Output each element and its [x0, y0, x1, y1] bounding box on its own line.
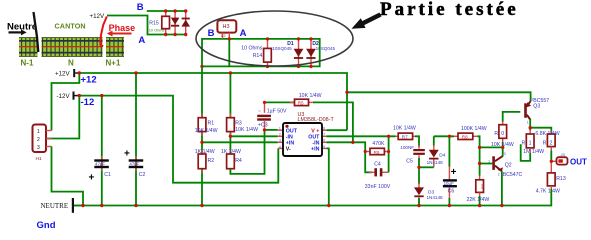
svg-text:5: 5 [323, 145, 325, 149]
svg-text:+: + [451, 167, 457, 178]
svg-text:N+1: N+1 [106, 59, 121, 68]
resistor R5 [290, 93, 322, 106]
svg-text:1K 1/4W: 1K 1/4W [195, 149, 215, 155]
capacitor C3 [257, 102, 287, 129]
svg-text:1: 1 [527, 121, 529, 125]
svg-text:N-1: N-1 [21, 59, 34, 68]
svg-text:1 2: 1 2 [221, 34, 226, 38]
svg-text:C6: C6 [448, 189, 455, 195]
svg-text:+C3: +C3 [258, 122, 268, 128]
wire NEUTRE rail [74, 205, 550, 207]
svg-text:C2: C2 [139, 172, 146, 178]
svg-text:B: B [208, 28, 215, 39]
svg-text:Q3: Q3 [533, 103, 540, 109]
transistor Q3 BC557 [524, 98, 549, 125]
svg-text:LM358L-D08-T: LM358L-D08-T [298, 117, 335, 123]
track segment N-1 [19, 37, 38, 57]
svg-text:B: B [137, 2, 144, 13]
svg-text:1: 1 [37, 129, 40, 135]
svg-text:H1: H1 [36, 156, 42, 162]
svg-text:R: R [522, 141, 526, 147]
svg-text:BC547C: BC547C [503, 172, 523, 178]
wire D4 bottom to C5/D3 node [419, 166, 434, 168]
junction dots H3 loop [200, 37, 312, 68]
svg-text:+12V: +12V [90, 13, 105, 20]
resistor R9 22K [467, 176, 490, 206]
svg-text:NEUTRE: NEUTRE [41, 202, 69, 210]
wire H1 pin3 to neutre rail [52, 147, 84, 206]
svg-text:C4: C4 [374, 162, 381, 168]
svg-text:33nF 100V: 33nF 100V [365, 184, 391, 190]
capacitor C6 [443, 136, 457, 205]
wire +12 to H1 pin1 [52, 73, 80, 131]
svg-text:R9: R9 [480, 184, 484, 189]
diode D2 [306, 39, 335, 67]
svg-text:V +: V + [311, 128, 319, 134]
svg-text:0: 0 [501, 131, 504, 137]
svg-text:N: N [68, 59, 74, 68]
ellipse partie testee [196, 11, 353, 66]
resistor R11 1M [522, 130, 545, 155]
svg-text:+: + [124, 149, 130, 160]
svg-text:2: 2 [532, 98, 534, 102]
svg-text:7: 7 [323, 133, 325, 137]
connector H3 [217, 20, 236, 39]
wire red phase lead [100, 17, 107, 47]
diode D3 [414, 183, 443, 206]
resistor R10 [491, 121, 514, 148]
wire -12 to H1 pin2 [46, 96, 79, 139]
svg-text:3: 3 [279, 139, 281, 143]
svg-text:V-: V- [286, 147, 291, 153]
svg-text:R: R [543, 141, 547, 147]
svg-text:R: R [494, 131, 498, 137]
svg-text:R14: R14 [253, 53, 263, 59]
NEUTRE ground flag [41, 198, 84, 213]
svg-text:R6: R6 [374, 150, 380, 155]
svg-text:6: 6 [323, 139, 325, 143]
svg-text:10µF: 10µF [444, 181, 454, 186]
capacitor C5 [400, 145, 425, 165]
svg-text:+IN: +IN [311, 147, 320, 153]
svg-text:R4: R4 [235, 158, 242, 164]
capacitor C4 [365, 152, 391, 191]
connector J3 OUT [551, 152, 567, 165]
resistor R8 [454, 126, 487, 140]
svg-text:10SQ045: 10SQ045 [272, 46, 292, 51]
svg-text:10 Ohms: 10 Ohms [241, 45, 262, 51]
op-amp U3 LM358 [278, 112, 335, 156]
svg-text:100K 1/4W: 100K 1/4W [461, 126, 487, 132]
resistor R1 [195, 114, 218, 137]
resistor R3 [227, 114, 258, 137]
svg-text:1N4148: 1N4148 [427, 195, 444, 200]
svg-text:+: + [89, 173, 95, 184]
wire from +12V to node A rail [107, 16, 186, 35]
svg-text:47µF: 47µF [129, 161, 139, 166]
wire +IN2 to ground [326, 148, 328, 205]
wire -12 rail to IC V- [79, 96, 278, 183]
+12V power flag [55, 69, 79, 77]
svg-text:+IN: +IN [286, 140, 295, 146]
svg-text:4.7K 1/4W: 4.7K 1/4W [536, 189, 560, 195]
wire Q3 collector node [530, 119, 551, 135]
resistor R12 6.8K [535, 131, 559, 152]
svg-text:4: 4 [279, 145, 281, 149]
wire black neutre lead [34, 12, 39, 52]
svg-text:10 Ohms: 10 Ohms [149, 28, 165, 33]
svg-text:1K 1/4W: 1K 1/4W [221, 149, 241, 155]
wire +12 rail [79, 73, 347, 130]
diode D4 [427, 136, 446, 167]
svg-text:10SQ045: 10SQ045 [316, 46, 336, 51]
svg-text:10K 1/4W: 10K 1/4W [393, 125, 416, 131]
svg-text:H3: H3 [223, 24, 230, 30]
capacitor C1 [89, 96, 112, 206]
wire R4 bottom to OUT1 node [230, 130, 264, 174]
track segment N+1 [106, 37, 124, 57]
svg-text:1: 1 [279, 127, 281, 131]
wire R13 to rail corner [550, 189, 551, 206]
svg-text:2: 2 [37, 137, 40, 143]
svg-text:C1: C1 [104, 172, 111, 178]
svg-text:A: A [138, 35, 145, 46]
red arrow (Phase) [107, 31, 132, 37]
svg-text:OUT: OUT [570, 157, 587, 166]
arrow to ellipse [352, 13, 382, 29]
wire R10 top to Q3 base [503, 112, 521, 122]
wire +12 branch to Q3 emitter [347, 92, 531, 101]
resistor R13 4.7K [536, 161, 566, 194]
wire R12 bottom to OUT node [550, 151, 552, 162]
svg-text:OUT: OUT [286, 128, 298, 134]
wire R7 to C5 [415, 136, 419, 146]
resistor R6 [365, 141, 388, 155]
wire OUT2 row to R7 [326, 135, 395, 137]
wire R6 right to OUT2 row [388, 136, 390, 151]
svg-text:R7: R7 [402, 135, 408, 140]
transistor Q2 BC547C [488, 152, 522, 178]
wire H3 test loop [202, 39, 320, 67]
wire D3 to rail [418, 198, 420, 206]
svg-text:1: 1 [529, 141, 532, 147]
svg-text:100NF: 100NF [400, 145, 414, 150]
connector H1 [33, 125, 52, 163]
track segment N (CANTON) [42, 37, 103, 57]
svg-text:R5: R5 [298, 101, 304, 106]
wire node A to R1 and +IN1 [202, 66, 278, 142]
svg-text:10K 1/4W: 10K 1/4W [195, 128, 218, 134]
wire branch to Q2 base [480, 163, 493, 165]
svg-text:10K 1/4W: 10K 1/4W [235, 127, 258, 133]
svg-text:3: 3 [37, 145, 40, 151]
wire R8 to base column [477, 136, 479, 176]
svg-text:2: 2 [498, 173, 500, 177]
svg-text:+12V: +12V [55, 70, 70, 77]
svg-text:R1: R1 [208, 120, 215, 126]
wire -IN2 to R6 left [326, 142, 365, 151]
resistor R14 [241, 39, 271, 67]
svg-text:Gnd: Gnd [37, 220, 56, 231]
svg-text:6.8K 1/4W: 6.8K 1/4W [535, 131, 559, 137]
wire H3 pin2 to A wire [228, 39, 230, 67]
svg-text:-IN: -IN [312, 140, 319, 146]
svg-text:47µF: 47µF [95, 161, 105, 166]
svg-text:~: ~ [258, 108, 261, 113]
svg-text:3: 3 [504, 152, 506, 156]
svg-text:Q2: Q2 [505, 163, 512, 169]
svg-text:R2: R2 [208, 158, 215, 164]
svg-text:Phase: Phase [109, 23, 136, 33]
svg-text:10K 1/4W: 10K 1/4W [299, 93, 322, 99]
svg-text:C5: C5 [406, 159, 413, 165]
diode D (down) of R15 pair [171, 11, 180, 35]
svg-text:-12V: -12V [57, 93, 71, 100]
resistor R7 [393, 125, 416, 139]
resistor R15 [149, 11, 170, 35]
svg-text:470K: 470K [372, 141, 385, 147]
wire C5 bottom to D3 [418, 158, 420, 184]
diode D1 [272, 39, 303, 67]
svg-text:1M 1/4W: 1M 1/4W [523, 149, 544, 155]
wire OUT1 to IC [265, 129, 278, 131]
resistor R4 [221, 136, 242, 173]
svg-text:R15: R15 [149, 21, 159, 27]
svg-text:1µF 50V: 1µF 50V [267, 108, 287, 114]
svg-text:CANTON: CANTON [55, 21, 86, 30]
wire node B rail [147, 10, 186, 12]
black arrow (Neutre) [9, 29, 27, 35]
capacitor C2 [124, 73, 146, 206]
wire D4 top row to R8 [434, 135, 454, 137]
svg-text:Partie testée: Partie testée [380, 0, 519, 20]
svg-text:R8: R8 [462, 135, 468, 140]
wire branch to R10 bottom / Q2 collector [480, 146, 503, 148]
wire V+ to +12 [326, 129, 347, 131]
svg-text:-12: -12 [81, 97, 95, 108]
svg-text:R13: R13 [556, 176, 566, 182]
wire R5 to -IN2 [313, 102, 353, 142]
svg-text:1: 1 [488, 160, 490, 164]
junction dots R15 block [164, 9, 187, 36]
svg-text:1N4148: 1N4148 [427, 160, 444, 165]
svg-text:A: A [240, 28, 247, 39]
junction dots main [78, 71, 553, 207]
wire C3 top to R5 [265, 101, 295, 103]
diode D (up) of R15 pair [181, 11, 190, 35]
resistor R2 [195, 142, 215, 205]
wire Q2 emitter to rail [501, 171, 503, 205]
svg-text:8: 8 [323, 127, 325, 131]
svg-text:+12: +12 [81, 75, 97, 86]
wire Q2 collector up [502, 147, 504, 156]
wire +12 to R3 and -IN1 [230, 73, 277, 136]
svg-text:D4: D4 [439, 152, 445, 158]
-12V power flag [57, 92, 80, 100]
svg-text:2: 2 [279, 133, 281, 137]
svg-text:R3: R3 [235, 120, 242, 126]
svg-text:2: 2 [550, 141, 553, 147]
svg-text:22K 1/4W: 22K 1/4W [467, 197, 490, 203]
wire R11 bottom stub [521, 144, 531, 161]
